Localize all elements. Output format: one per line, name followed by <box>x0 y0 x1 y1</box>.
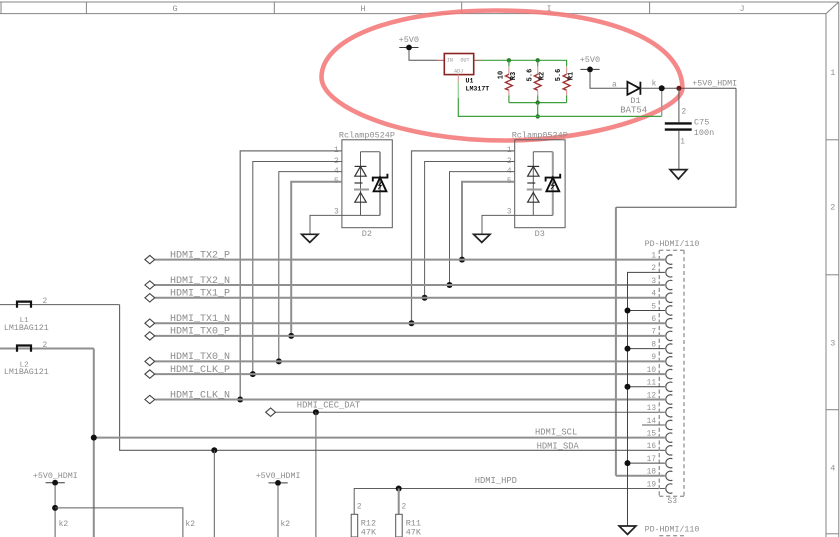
wire HDMI_TX2_P <box>155 259 665 261</box>
svg-text:7: 7 <box>651 329 656 337</box>
D3 internal pin5 stub <box>527 189 542 191</box>
wire D3 pin4 to HDMI_TX2_N <box>450 172 515 285</box>
svg-text:+5V0: +5V0 <box>399 35 419 45</box>
ESD array D2 <box>237 130 395 402</box>
wire D2 pin4 to HDMI_TX0_N <box>279 172 342 362</box>
wire HDMI_CLK_N <box>155 399 665 401</box>
svg-text:D3: D3 <box>535 229 545 239</box>
svg-text:ADJ: ADJ <box>454 69 463 75</box>
wire k2 branch <box>55 508 183 537</box>
wire k junction down to ADJ rail <box>661 88 663 116</box>
port diamond HDMI_CLK_N <box>145 395 155 403</box>
svg-text:HDMI_HPD: HDMI_HPD <box>475 476 517 486</box>
pin contact 11 S3 <box>666 382 673 391</box>
ground D2 <box>302 234 318 242</box>
pin contact 5 S3 <box>666 306 673 315</box>
pin stub U1 ADJ <box>457 75 459 82</box>
svg-text:R3: R3 <box>510 72 518 80</box>
svg-text:3: 3 <box>830 338 835 348</box>
wire +5V0_HDMI wrap to pin 18 <box>616 88 736 207</box>
diode D1 <box>627 82 640 95</box>
connector S3 dashed outline left edge <box>658 250 660 496</box>
svg-text:4: 4 <box>830 464 835 474</box>
svg-text:R1: R1 <box>568 72 576 80</box>
op-amp regulator U1 box <box>444 54 473 75</box>
wire HDMI_TX1_P <box>155 297 665 299</box>
svg-text:BAT54: BAT54 <box>620 106 647 116</box>
connector S3 pin contacts <box>666 255 673 493</box>
wire OUT rail green <box>481 60 567 66</box>
svg-text:k2: k2 <box>59 520 69 529</box>
wire +5V0_HDMI 1 drop <box>54 485 56 537</box>
ground D3 <box>474 234 490 242</box>
pin number labels D2 <box>334 147 339 216</box>
node R11 junction <box>396 486 402 492</box>
port diamond HDMI_TX0_N <box>145 357 155 365</box>
D2 internal diode a <box>355 165 367 167</box>
svg-text:+5V0: +5V0 <box>580 55 600 65</box>
svg-text:PD-HDMI/110: PD-HDMI/110 <box>645 524 700 534</box>
svg-text:10: 10 <box>647 367 657 375</box>
wire HDMI_TX2_N <box>155 284 665 286</box>
ESD array D3 <box>409 130 568 326</box>
ground below S3 <box>619 526 636 534</box>
svg-text:19: 19 <box>647 481 657 489</box>
svg-text:HDMI_TX0_P: HDMI_TX0_P <box>170 327 230 338</box>
svg-text:10: 10 <box>498 71 506 79</box>
pin contact 17 S3 <box>666 458 673 467</box>
node SCL junction <box>91 435 97 441</box>
wire D1 cathode to +5V0_HDMI node <box>640 87 736 89</box>
pin stub U1 OUT <box>474 59 481 61</box>
pin contact 9 S3 <box>666 357 673 366</box>
wire D3 pin3 to ground <box>482 215 553 234</box>
wire S3 pin 14 stub <box>642 424 665 426</box>
node green junction R2 bottom <box>536 100 540 104</box>
wire S3 shield stub pin8 <box>628 348 665 350</box>
svg-text:1: 1 <box>680 138 685 146</box>
svg-text:5.6: 5.6 <box>555 69 563 82</box>
D3 internal TVS diode <box>546 174 561 192</box>
svg-text:D1: D1 <box>630 96 640 106</box>
node k junction <box>659 85 665 91</box>
svg-text:LM317T: LM317T <box>466 85 490 92</box>
wire SDA pullup drop <box>213 450 215 537</box>
svg-text:OUT: OUT <box>461 58 470 64</box>
node k2 branch junction <box>52 505 58 511</box>
svg-text:H: H <box>360 4 365 14</box>
wire HDMI_TX0_N <box>155 360 665 362</box>
svg-text:D2: D2 <box>362 229 372 239</box>
svg-text:+5V0_HDMI: +5V0_HDMI <box>256 472 301 481</box>
resistor R11 <box>396 504 422 537</box>
svg-text:2: 2 <box>402 504 407 512</box>
pin contact 2 S3 <box>666 268 673 277</box>
D2 internal TVS diode <box>373 174 388 192</box>
power +5V0_HDMI symbol 2 <box>256 472 301 486</box>
pin contact 10 S3 <box>666 369 673 378</box>
svg-text:IN: IN <box>447 58 453 64</box>
node green junction ADJ rail <box>536 114 540 118</box>
svg-text:HDMI_TX2_P: HDMI_TX2_P <box>170 250 230 261</box>
node junctions D3 <box>409 320 415 326</box>
svg-text:6: 6 <box>651 316 656 324</box>
D3 internal diode a cathode bar <box>527 182 535 184</box>
svg-text:13: 13 <box>647 405 657 413</box>
pin contact 8 S3 <box>666 344 673 353</box>
pin stub U1 IN <box>437 59 444 61</box>
wire HDMI_CLK_P <box>155 373 665 375</box>
net labels TMDS <box>170 250 230 401</box>
svg-text:15: 15 <box>647 430 657 438</box>
node +5V0_HDMI junction (dark red) <box>676 86 681 91</box>
svg-text:LM1BAG121: LM1BAG121 <box>4 324 49 333</box>
wire S3 shield chain pin2 <box>628 272 665 526</box>
pin contact 14 S3 <box>666 420 673 429</box>
svg-text:HDMI_TX1_P: HDMI_TX1_P <box>170 289 230 300</box>
wire HDMI_TX0_P <box>155 335 665 337</box>
svg-text:k: k <box>652 81 657 89</box>
wire S3 shield stub pin11 <box>628 386 665 388</box>
svg-text:HDMI_CLK_N: HDMI_CLK_N <box>170 390 230 401</box>
pin contact 3 S3 <box>666 280 673 289</box>
wire D2 pin3 to ground <box>310 215 380 234</box>
connector S3 pin numbers <box>647 252 657 489</box>
svg-text:+5V0_HDMI: +5V0_HDMI <box>33 472 78 481</box>
inductor L1 <box>0 298 120 333</box>
wire R11 drop <box>398 489 400 515</box>
svg-text:HDMI_CLK_P: HDMI_CLK_P <box>170 365 230 376</box>
wire D3 pin2 to HDMI_TX1_P <box>425 162 515 298</box>
svg-text:2: 2 <box>830 203 835 213</box>
red highlight ellipse annotation <box>322 11 683 141</box>
svg-text:a: a <box>612 81 617 89</box>
wire L1 to HDMI_SDA <box>120 305 665 451</box>
node shield junction pin8 <box>625 346 631 352</box>
frame right border <box>825 14 827 537</box>
svg-text:PD-HDMI/110: PD-HDMI/110 <box>645 239 700 249</box>
pin contact 16 S3 <box>666 446 673 455</box>
power +5V0 symbol 2 <box>580 55 600 72</box>
svg-text:J: J <box>739 4 744 14</box>
port diamond HDMI_TX0_P <box>145 332 155 340</box>
node shield junction pin17 <box>625 460 631 466</box>
resistor R12 <box>351 504 377 537</box>
pin contact 18 S3 <box>666 471 673 480</box>
node green junction R2 top <box>536 58 540 62</box>
pin contact 12 S3 <box>666 395 673 404</box>
wire HDMI_HPD <box>354 489 665 515</box>
pin contact 1 S3 <box>666 255 673 264</box>
D2 internal pin5 stub <box>354 189 369 191</box>
frame column labels <box>172 4 835 474</box>
svg-text:47K: 47K <box>361 527 377 537</box>
node junctions D2 <box>237 397 243 403</box>
port diamond HDMI_TX2_N <box>145 281 155 289</box>
resistor R3 <box>498 60 518 102</box>
wire R2 bottom to ADJ rail <box>537 103 539 117</box>
port diamond HDMI_TX1_N <box>145 319 155 327</box>
svg-text:2: 2 <box>357 504 362 512</box>
node shield junction pin11 <box>625 384 631 390</box>
svg-text:2: 2 <box>43 342 48 350</box>
port diamond HDMI_CLK_P <box>145 370 155 378</box>
svg-text:k2: k2 <box>185 520 195 529</box>
node SDA pullup junction <box>211 447 217 453</box>
pin contact 13 S3 <box>666 408 673 417</box>
D3 internal diode a <box>527 165 539 167</box>
wire HDMI_CEC_DAT <box>276 411 665 413</box>
D3 internal rails <box>533 152 553 216</box>
svg-text:5.6: 5.6 <box>526 69 534 82</box>
svg-text:HDMI_TX2_N: HDMI_TX2_N <box>170 276 230 287</box>
svg-text:k2: k2 <box>281 520 291 529</box>
svg-text:HDMI_CEC_DAT: HDMI_CEC_DAT <box>297 400 360 410</box>
wire resistor bottom rail <box>509 102 567 104</box>
pin contact 6 S3 <box>666 319 673 328</box>
svg-text:+5V0_HDMI: +5V0_HDMI <box>692 80 737 89</box>
wire L2 to HDMI_SCL and pullup drop <box>93 349 95 537</box>
port diamonds TMDS <box>145 255 155 403</box>
node shield junction pin5 <box>625 307 631 313</box>
svg-text:47K: 47K <box>406 527 422 537</box>
pin contact 19 S3 <box>666 484 673 493</box>
port diamond HDMI_TX2_P <box>145 255 155 263</box>
pin contact 4 S3 <box>666 293 673 302</box>
svg-text:3: 3 <box>651 278 656 286</box>
wire D2 pin5 to HDMI_TX0_P <box>291 182 342 336</box>
svg-text:R2: R2 <box>539 72 547 80</box>
svg-text:12: 12 <box>647 392 657 400</box>
svg-text:4: 4 <box>651 291 656 299</box>
pin contact 15 S3 <box>666 433 673 442</box>
wire +5V0 to U1 IN <box>409 50 437 60</box>
D2 internal rails <box>361 152 381 216</box>
svg-text:2: 2 <box>43 298 48 306</box>
svg-text:HDMI_TX1_N: HDMI_TX1_N <box>170 314 230 325</box>
wire D2 pin2 to HDMI_CLK_P <box>253 162 342 375</box>
wire +5V0_HDMI 2 drop <box>277 485 279 537</box>
wire S3 shield stub pin5 <box>628 309 665 311</box>
svg-text:2: 2 <box>682 108 687 116</box>
svg-text:HDMI_SCL: HDMI_SCL <box>535 428 577 438</box>
svg-text:18: 18 <box>647 469 657 477</box>
D3 internal diode b <box>528 193 539 203</box>
resistor R2 <box>526 60 546 102</box>
connector S4 dashed outline top <box>659 535 684 537</box>
svg-text:S3: S3 <box>667 497 677 506</box>
wire S3 shield stub pin17 <box>628 462 665 464</box>
svg-text:Rclamp0524P: Rclamp0524P <box>512 130 568 140</box>
svg-text:LM1BAG121: LM1BAG121 <box>4 368 49 377</box>
svg-text:100n: 100n <box>694 128 714 138</box>
pin number labels D3 <box>507 147 512 216</box>
port diamond CEC <box>266 408 276 416</box>
wire D3 pin1 to HDMI_TX1_N <box>412 151 515 323</box>
svg-text:1: 1 <box>651 252 656 260</box>
inductor L2 <box>0 342 94 377</box>
svg-text:9: 9 <box>651 354 656 362</box>
connector S3 dashed outline <box>659 250 684 496</box>
svg-text:HDMI_TX0_N: HDMI_TX0_N <box>170 352 230 363</box>
svg-text:U1: U1 <box>466 78 474 85</box>
node CEC pullup junction <box>313 409 319 415</box>
wire D3 pin5 to HDMI_TX2_P <box>462 182 515 260</box>
wire CEC pullup drop <box>315 412 317 537</box>
wire ADJ rail <box>458 98 661 116</box>
svg-text:1: 1 <box>830 68 835 78</box>
node green junction R3 top <box>507 58 511 62</box>
D2 internal diode b <box>355 193 366 203</box>
wire D2 pin1 to HDMI_CLK_N <box>240 151 342 400</box>
svg-text:16: 16 <box>647 443 657 451</box>
wire +5V0 to D1 anode <box>590 72 627 88</box>
ground below C75 <box>670 170 687 180</box>
wire HDMI_TX1_N <box>155 322 665 324</box>
D2 internal diode a cathode bar <box>355 182 363 184</box>
svg-text:G: G <box>172 4 177 14</box>
power +5V0_HDMI symbol 1 <box>33 472 78 486</box>
svg-text:Rclamp0524P: Rclamp0524P <box>339 130 395 140</box>
power +5V0 symbol 1 <box>399 35 419 51</box>
resistor R1 <box>555 66 575 102</box>
svg-text:C75: C75 <box>694 118 709 128</box>
capacitor C75 <box>665 88 714 169</box>
pin contact 7 S3 <box>666 331 673 340</box>
svg-text:HDMI_SDA: HDMI_SDA <box>537 442 580 452</box>
port diamond HDMI_TX1_P <box>145 294 155 302</box>
